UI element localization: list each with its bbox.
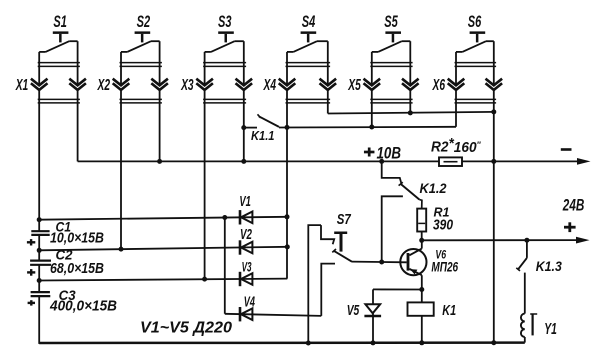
svg-text:K1.1: K1.1 <box>251 128 275 143</box>
node S5 left to K1.1 bus <box>369 125 374 130</box>
wire +10V bus <box>78 160 439 162</box>
wire X2 left pin <box>120 52 122 85</box>
node V5 bottom <box>371 340 376 345</box>
wire arm to R1 <box>419 200 422 209</box>
diode V2 <box>239 240 242 254</box>
sounder Y1 coil <box>521 314 525 337</box>
contact K1.1 <box>241 125 246 130</box>
resistor R2 <box>439 157 462 166</box>
node C3 junction <box>37 278 42 283</box>
node R1 collector plus-line <box>419 238 424 243</box>
svg-text:X4: X4 <box>263 77 276 94</box>
wire K1 to bottom bus <box>421 316 423 343</box>
svg-text:V4: V4 <box>244 294 255 310</box>
svg-text:K1: K1 <box>442 302 456 319</box>
node S3 left to C3 bus <box>202 277 207 282</box>
wire S7 lower fixed terminal to V4 <box>321 264 335 316</box>
wire emitter to V5 <box>373 288 422 290</box>
label +10V <box>364 151 375 154</box>
wire X1 left pin <box>38 52 40 85</box>
contact K1.2 arm <box>400 184 419 200</box>
wire S1 left between C1 C2 <box>38 235 40 261</box>
capacitor C3 <box>31 291 50 293</box>
wire K1.2 upper terminal <box>382 161 402 183</box>
svg-text:X3: X3 <box>180 77 193 94</box>
wire base <box>352 261 407 264</box>
wire K1.3 upper terminal <box>526 240 528 258</box>
wire C2 bus <box>39 247 287 251</box>
wire X1 right pin <box>77 41 79 84</box>
node S2 right to +10V bus <box>157 159 162 164</box>
svg-text:S4: S4 <box>302 13 316 31</box>
node S6 right crossing +10V bus <box>491 159 496 164</box>
svg-text:390: 390 <box>433 217 454 234</box>
node emitter V5 K1 <box>419 287 424 292</box>
contact K1.3 arm <box>518 258 527 270</box>
node V1 right on S4 left <box>285 214 290 219</box>
wire X3 right pin <box>243 41 245 84</box>
node diode column top <box>222 215 227 220</box>
svg-text:10,0×15В: 10,0×15В <box>50 231 104 247</box>
node S2 left to C2 bus <box>119 247 124 252</box>
svg-text:V1: V1 <box>239 194 251 210</box>
contact S7 arm <box>334 251 352 262</box>
svg-text:S2: S2 <box>137 13 151 31</box>
svg-text:S3: S3 <box>218 13 232 31</box>
wire S7 ground rail <box>308 225 321 344</box>
svg-text:24В: 24В <box>562 196 584 215</box>
svg-text:S6: S6 <box>468 13 482 31</box>
svg-text:V5: V5 <box>347 303 360 319</box>
svg-text:400,0×15В: 400,0×15В <box>49 299 117 315</box>
svg-text:X5: X5 <box>348 77 362 94</box>
svg-text:K1.2: K1.2 <box>420 180 447 196</box>
node S4 left crossing K1.1 bus <box>285 125 290 130</box>
wire X4 right pin <box>327 41 329 84</box>
node S6 right on bus <box>491 109 496 114</box>
node K1 bottom <box>419 340 424 345</box>
capacitor C1 <box>31 230 49 232</box>
relay coil K1 <box>408 302 434 315</box>
svg-text:S1: S1 <box>53 13 67 31</box>
svg-text:S7: S7 <box>337 212 352 228</box>
wire X6 left pin <box>455 52 457 85</box>
wire X3 left pin <box>204 52 206 85</box>
node C1 junction <box>37 217 42 222</box>
svg-text:68,0×15В: 68,0×15В <box>50 261 104 277</box>
node C2 junction <box>37 248 42 253</box>
wire K1.2 lower terminal to base <box>382 196 403 262</box>
wire diode column left vertical <box>224 218 226 314</box>
node S5 right on bus <box>408 110 413 115</box>
diode V5 <box>372 289 374 304</box>
diode V1 <box>239 210 242 224</box>
wire collector up <box>421 240 423 248</box>
wire S1 left between C2 C3 <box>38 265 40 292</box>
svg-text:X2: X2 <box>97 77 110 94</box>
wire X6 right pin <box>493 41 495 84</box>
wire S7 upper fixed terminal <box>321 225 334 244</box>
node V2 right on S4 left <box>285 244 290 249</box>
wire C1 bus <box>39 217 287 220</box>
wire R1 to collector node <box>421 232 423 241</box>
svg-text:R2*160″: R2*160″ <box>431 135 481 156</box>
svg-text:Y1: Y1 <box>544 321 557 338</box>
sounder Y1 core bar <box>531 314 533 335</box>
wire X4 left pin <box>286 52 288 85</box>
node +24V to K1.3 <box>524 238 529 243</box>
diode V4 <box>239 307 242 321</box>
node +10V to K1.2 <box>379 159 384 164</box>
node S7 rail bottom <box>306 341 311 346</box>
capacitor C2 <box>30 260 51 262</box>
node S3 right to +10V bus <box>241 159 246 164</box>
svg-text:V1~V5 Д220: V1~V5 Д220 <box>140 319 232 336</box>
svg-text:V2: V2 <box>240 227 252 243</box>
wire C3 to bottom bus <box>38 296 40 344</box>
wire +24V line <box>422 239 577 241</box>
svg-text:V3: V3 <box>242 260 252 275</box>
svg-text:X1: X1 <box>15 77 28 94</box>
label plus output <box>564 226 576 229</box>
wire bottom bus <box>39 341 525 344</box>
wire X2 right pin <box>159 41 161 84</box>
wire emitter to K1 coil <box>421 290 423 303</box>
resistor R1 <box>417 209 426 232</box>
svg-text:K1.3: K1.3 <box>536 258 562 274</box>
svg-text:X6: X6 <box>432 77 445 94</box>
svg-text:МП26: МП26 <box>431 260 458 275</box>
node base <box>379 260 384 265</box>
wire X5 left pin <box>371 52 373 85</box>
node S6 right bottom <box>491 340 496 345</box>
transistor V6 <box>400 249 426 275</box>
wire K1.3 lower terminal <box>524 273 526 314</box>
wire X5 right pin <box>409 41 411 84</box>
diode V3 <box>239 272 242 286</box>
svg-text:S5: S5 <box>384 13 398 31</box>
wire X4/X5/X6 right pins bus <box>328 112 494 114</box>
wire V4 row <box>225 314 321 316</box>
wire emitter down <box>421 275 423 289</box>
wire C3 bus <box>39 279 287 281</box>
label minus output <box>561 148 572 151</box>
